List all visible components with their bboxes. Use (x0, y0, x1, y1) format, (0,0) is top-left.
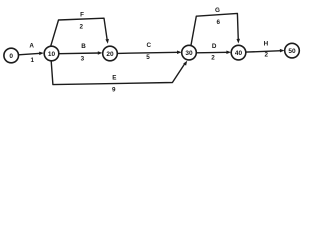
wire D arrow 30 to 40 (197, 51, 229, 54)
wire H arrow 40 to 50 (246, 51, 282, 52)
node 20 (103, 46, 118, 61)
wire B arrow 10 to 20 (59, 52, 99, 55)
arrowhead B (98, 51, 103, 55)
arrowhead D (226, 51, 231, 55)
node 50 (285, 43, 300, 58)
svg-text:D: D (212, 43, 217, 50)
wire E elbow 10 to 30 (51, 61, 185, 85)
arrowhead F (105, 39, 109, 44)
arrowhead E (183, 61, 187, 66)
node 10 (44, 46, 59, 61)
svg-text:E: E (112, 75, 116, 82)
svg-text:0: 0 (9, 53, 13, 60)
svg-text:20: 20 (106, 51, 114, 58)
svg-text:50: 50 (288, 48, 296, 55)
wire G elbow 30 to 40 (191, 13, 238, 45)
svg-text:10: 10 (48, 51, 56, 58)
wire A arrow 0 to 10 (19, 53, 41, 55)
svg-text:C: C (147, 42, 152, 49)
wire F elbow 10 to 20 (51, 18, 108, 47)
svg-text:30: 30 (185, 50, 193, 57)
svg-text:3: 3 (81, 56, 85, 63)
svg-text:H: H (264, 41, 269, 48)
svg-text:F: F (80, 11, 84, 18)
arrowhead A (39, 52, 44, 56)
svg-text:B: B (81, 43, 86, 50)
svg-text:40: 40 (235, 50, 243, 57)
svg-text:5: 5 (146, 54, 150, 61)
svg-text:G: G (215, 7, 220, 14)
svg-text:2: 2 (264, 52, 268, 59)
svg-text:6: 6 (216, 19, 220, 26)
node 30 (182, 45, 197, 60)
svg-text:9: 9 (112, 86, 116, 93)
svg-text:1: 1 (31, 57, 35, 64)
svg-text:A: A (29, 43, 34, 50)
wire C arrow 20 to 30 (118, 52, 179, 53)
svg-text:2: 2 (211, 55, 215, 62)
node 40 (231, 45, 246, 60)
svg-text:2: 2 (79, 24, 83, 31)
arrowhead H (280, 49, 285, 53)
arrowhead G (237, 39, 241, 44)
node 0 (4, 48, 19, 63)
arrowhead C (177, 51, 182, 55)
